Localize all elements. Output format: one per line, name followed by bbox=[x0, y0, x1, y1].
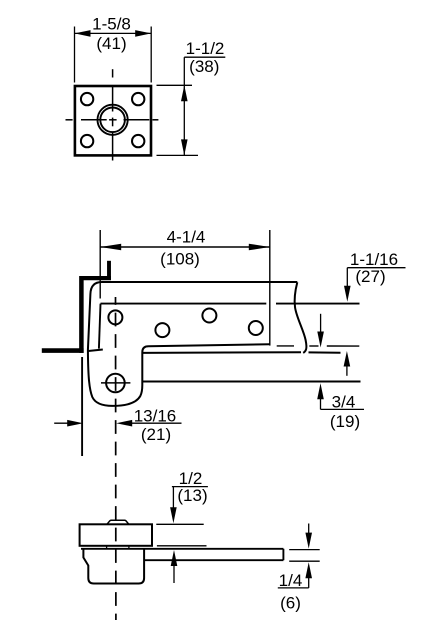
down arrow to strip bbox=[320, 314, 322, 335]
seam and arm top line bbox=[81, 548, 283, 550]
dimension 4-1/4 arrowheads bbox=[100, 244, 270, 251]
svg-text:(21): (21) bbox=[141, 425, 171, 444]
svg-text:(27): (27) bbox=[355, 267, 385, 286]
floor pivot body bbox=[83, 548, 144, 583]
svg-text:(38): (38) bbox=[189, 57, 219, 76]
frame section: thick angle stub bbox=[107, 261, 111, 280]
dimension 4-1/4 (108) extension lines bbox=[100, 230, 270, 346]
svg-text:(108): (108) bbox=[160, 250, 200, 269]
plate center bearing double circle bbox=[98, 105, 128, 135]
plate corner holes bbox=[81, 93, 144, 147]
dimension 1-1/2 (38) extension lines bbox=[157, 57, 226, 155]
frame section: thick bottom bar bbox=[42, 348, 84, 353]
pin edges in gap bbox=[107, 546, 129, 549]
pivot dashed centerline bbox=[115, 297, 117, 620]
dimension 13/16 right arrow and line bbox=[116, 420, 132, 427]
svg-text:1/2: 1/2 bbox=[179, 469, 203, 488]
plate vertical centerline bbox=[112, 69, 114, 160]
dimension 1-1/16 (27) leader bbox=[347, 268, 405, 289]
break S-curve bbox=[295, 282, 307, 353]
svg-text:(41): (41) bbox=[96, 34, 126, 53]
frame section: thick vertical bar bbox=[79, 276, 84, 353]
thin strip top line bbox=[277, 345, 360, 347]
dimension 1/4 up arrow bbox=[308, 575, 310, 588]
arm bottom edge bbox=[142, 381, 361, 383]
svg-text:(13): (13) bbox=[177, 486, 207, 505]
plate horizontal centerline bbox=[66, 119, 159, 121]
dimension 1-1/16 arrowhead bbox=[344, 286, 351, 302]
dimension 1/2 down arrowhead bbox=[170, 507, 177, 523]
dimension 1/4 down arrow bbox=[308, 524, 310, 538]
dimension 1/4 leader bbox=[278, 587, 309, 589]
frame thin line below bbox=[81, 357, 83, 456]
dimension 13/16 (21) left arrow bbox=[54, 422, 70, 424]
pivot crosshair horizontal bbox=[101, 382, 130, 384]
dimension 1/2 up arrow bbox=[173, 564, 175, 583]
svg-text:(6): (6) bbox=[280, 594, 301, 613]
hinge leaf outer outline with pivot lobe bbox=[88, 282, 297, 406]
face line beyond break bbox=[276, 303, 360, 305]
arm bottom line bbox=[144, 559, 283, 561]
dimension 1/2 (13) leader bbox=[172, 487, 208, 509]
arm top edge bbox=[143, 351, 301, 354]
svg-text:4-1/4: 4-1/4 bbox=[167, 227, 206, 246]
arm top edge right of break bbox=[309, 351, 341, 353]
pivot pin cap bbox=[107, 520, 129, 524]
svg-text:1-1/2: 1-1/2 bbox=[186, 39, 225, 58]
top plate outline bbox=[75, 86, 151, 155]
floor pivot flange bbox=[80, 524, 152, 546]
svg-text:13/16: 13/16 bbox=[134, 406, 177, 425]
dimension 1/4 (6) extension lines bbox=[289, 550, 320, 562]
svg-text:1-5/8: 1-5/8 bbox=[92, 15, 131, 34]
arm end cap bbox=[282, 549, 284, 560]
leaf inner face lines bbox=[88, 304, 266, 351]
frame section: thick top bar bbox=[80, 276, 111, 280]
pivot hole bbox=[106, 374, 125, 393]
dimension 1/2 extension lines bbox=[156, 524, 206, 546]
dimension 1-5/8 (41) extension lines bbox=[75, 27, 152, 83]
svg-text:3/4: 3/4 bbox=[332, 393, 356, 412]
up arrow below strip bbox=[346, 365, 348, 376]
svg-text:1/4: 1/4 bbox=[279, 571, 303, 590]
dimension 1-5/8 arrowheads bbox=[75, 30, 152, 37]
dimension 3/4 (19) bbox=[320, 396, 322, 409]
dimension 1-1/2 arrowheads bbox=[181, 85, 188, 155]
svg-text:(19): (19) bbox=[330, 412, 360, 431]
leaf screw holes bbox=[108, 309, 262, 338]
